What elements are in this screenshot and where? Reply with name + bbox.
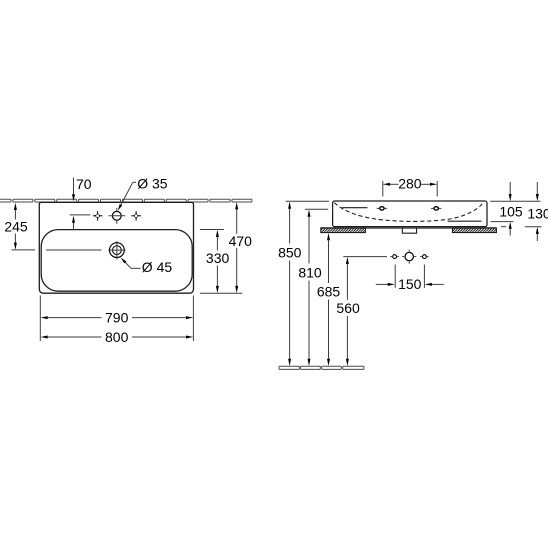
svg-text:685: 685 [317,284,341,300]
mounting bracket line [321,227,497,229]
basin outline (front view) [333,201,487,227]
dimension 130 [536,182,538,194]
dimension 810 (floor to tap holes) [308,210,311,217]
extension lines for 790/800 [39,296,41,342]
svg-text:70: 70 [76,176,92,192]
wall (tiled) behind plan view [0,199,252,202]
visible bowl edge right [448,220,482,222]
dimension 560 (floor to fixing holes) [346,257,349,264]
extension line tap hole level [305,208,328,210]
washbasin outer rim (plan view) [39,202,193,293]
dimension 800 [41,336,48,339]
hidden bowl contour (dashed) [334,203,482,222]
svg-text:470: 470 [229,233,253,249]
svg-text:850: 850 [278,245,302,261]
dimension 245 (wall to overflow centre) [12,249,36,251]
fixing hole right [423,255,427,259]
dimension 850 (floor to rim) [288,202,291,209]
main tap hole D35 [112,211,121,220]
overflow crosshairs [108,249,125,251]
bracket hatched bar right [452,228,496,233]
optional tap hole cross (left) [93,211,103,221]
optional tap hole cross (right) [131,211,141,221]
dimension 470 (overall depth) [200,292,242,294]
dimension 685 (floor to drain) [327,233,330,240]
svg-text:Ø 45: Ø 45 [142,259,173,275]
svg-text:105: 105 [499,203,523,219]
extension line bottom of bracket [501,226,506,228]
dimension 105 [509,182,511,194]
svg-text:280: 280 [398,176,422,192]
bracket hatched bar left [321,228,366,233]
visible deck edge left [342,207,367,209]
top extension line right [490,200,540,202]
svg-text:130: 130 [527,205,548,221]
floor (tiled) [279,366,364,369]
siphon hole centre [405,252,413,260]
tap hole (front view, left) [380,207,384,210]
svg-text:800: 800 [105,329,129,345]
tap hole centre extension line [70,214,91,216]
svg-text:Ø 35: Ø 35 [137,175,168,191]
drain outlet tab [402,228,416,233]
bowl centre line [46,249,102,251]
tap hole (front view, right) [434,207,438,210]
svg-text:560: 560 [336,300,360,316]
fixing hole left [393,255,397,259]
dimension 790 [41,316,48,319]
extension line bottom of ceramic [490,221,513,223]
svg-text:150: 150 [398,276,422,292]
extension line basin top left [286,200,329,202]
leader line for D45 [131,267,141,269]
extension line lower holes level [343,256,387,258]
overflow hole D45 (concentric circles) [110,243,125,258]
dimension 70, lower arrow [72,216,75,223]
svg-text:330: 330 [206,250,230,266]
washbasin inner bowl outline (plan view) [41,230,192,292]
dimension 330 (bowl depth) [200,229,224,231]
dimension 280 (tap hole spacing) [382,181,384,196]
svg-text:790: 790 [105,310,129,326]
leader line for D35 [133,181,136,183]
dimension 150 (fixing hole spacing) [394,265,396,288]
dimension 70 (wall to tap holes), upper part [73,178,75,195]
svg-text:810: 810 [298,265,322,281]
svg-text:245: 245 [4,218,28,234]
